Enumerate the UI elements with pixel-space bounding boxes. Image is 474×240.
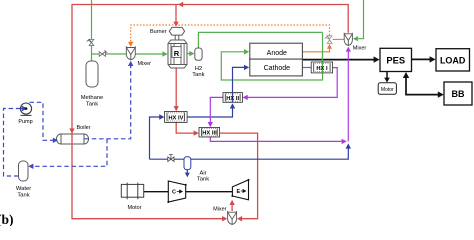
PES box: [380, 48, 412, 71]
arrow black right into BB left: [438, 91, 444, 97]
BB box: [444, 82, 472, 105]
svg-text:Motor: Motor: [127, 205, 141, 211]
arrow green into top mixer right: [353, 36, 358, 41]
wire purple HX II -> HX III: [210, 97, 223, 123]
wire red burner feed: [175, 5, 177, 23]
wire green overdraw at black line crossing: [321, 57, 323, 62]
svg-text:(b): (b): [0, 212, 14, 226]
wire red HX IV -> HX III: [176, 122, 195, 133]
arrow red into bottom mixer right: [237, 216, 242, 221]
wire blue air main line valve->tank->right riser: [150, 148, 349, 160]
arrow orange up into valve V3: [327, 44, 332, 49]
svg-text:Tank: Tank: [86, 102, 98, 108]
motor small box: [378, 83, 396, 95]
wire red reformer outlet R -> HX IV: [175, 68, 177, 107]
wire purple HX I -> HX II: [247, 68, 337, 98]
svg-text:Air: Air: [199, 170, 206, 176]
wire purple HX III -> junction -> top mixer: [210, 137, 342, 142]
svg-text:PES: PES: [386, 55, 405, 66]
wire green methane to mixer M1: [92, 53, 127, 55]
svg-text:Pump: Pump: [18, 119, 32, 125]
wire steam boiler -> mixer M1: [85, 65, 131, 139]
arrow black up into PES bottom: [403, 72, 409, 78]
wire green mixer M1 -> reformer R: [135, 53, 163, 55]
wire red HX III -> bottom mixer right: [219, 133, 257, 219]
heat exchanger HX III: [199, 127, 220, 137]
svg-text:HX IV: HX IV: [168, 116, 183, 122]
arrow blue into HX IV left: [159, 114, 164, 119]
mixer top (combustor feed): [344, 33, 352, 46]
arrow purple right into junction: [342, 139, 347, 144]
wire black shaft C -> E: [186, 191, 233, 193]
arrow green into anode left: [244, 49, 249, 54]
svg-text:Mixer: Mixer: [138, 61, 152, 67]
wire purple riser junction -> top mixer bottom: [347, 51, 349, 141]
reformer R vessel: [168, 40, 187, 68]
arrow red into boiler top: [69, 128, 74, 133]
svg-text:Tank: Tank: [192, 72, 204, 78]
wire black shaft motor -> C: [144, 191, 168, 193]
arrow red into E bottom: [229, 200, 234, 205]
svg-text:Tank: Tank: [17, 193, 29, 199]
wire red hot-gas main loop: top mixer -> top line -> left -> boiler -> bottom line -> bottom mixer: [72, 5, 348, 219]
wire purple cathode -> HX I: [302, 67, 311, 69]
compressor C vertex dots: [185, 184, 187, 186]
arrow water into water tank right: [28, 164, 33, 169]
arrow orange down into mixer M1 top: [128, 42, 133, 47]
arrow black into LOAD left: [430, 56, 436, 62]
wire black stack -> PES: [302, 59, 375, 61]
svg-text:Mixer: Mixer: [353, 45, 367, 51]
fuel cell cathode box: [250, 59, 303, 76]
mixer bottom (exhaust): [228, 211, 237, 225]
svg-text:BB: BB: [452, 89, 465, 99]
svg-text:LOAD: LOAD: [440, 56, 466, 66]
svg-text:C: C: [172, 190, 176, 196]
wire green methane supply vertical: [91, 0, 93, 61]
svg-text:Motor: Motor: [381, 87, 394, 93]
motor big: [121, 183, 143, 200]
arrow purple up into top mixer bottom: [346, 47, 351, 52]
valve V3 on orange offgas line: [325, 36, 332, 44]
svg-text:Methane: Methane: [81, 95, 104, 101]
svg-text:Cathode: Cathode: [264, 65, 291, 72]
valve V2 on methane horizontal: [99, 50, 107, 56]
arrow blue into HX II bottom: [230, 103, 235, 108]
svg-text:Burner: Burner: [150, 29, 167, 35]
compressor C: [168, 181, 185, 202]
wire green R -> H2 tank: [187, 53, 190, 55]
svg-text:Boiler: Boiler: [77, 125, 91, 131]
wire water pump -> boiler: [30, 102, 54, 140]
wire water return branch -> water tank: [32, 139, 107, 167]
arrow red into HX IV top: [174, 106, 179, 111]
valve V1 on methane vertical: [87, 39, 94, 46]
svg-text:Tank: Tank: [197, 177, 209, 183]
wire blue air tank bottom stub: [186, 170, 188, 174]
arrow blue down toward compressor C: [185, 173, 190, 178]
arrow red into burner top: [173, 22, 178, 27]
arrow blue into cathode left: [244, 65, 249, 70]
arrow green into R left: [162, 51, 167, 56]
wire water dashed tank -> pump: [4, 109, 21, 177]
svg-text:Mixer: Mixer: [213, 207, 227, 213]
svg-text:Anode: Anode: [267, 50, 287, 57]
valve V4 on air line: [168, 155, 174, 162]
fuel cell anode box: [250, 43, 303, 59]
wire orange stub valve -> top mixer left: [333, 38, 345, 40]
heat exchanger HX I: [311, 62, 332, 73]
wire green supply from top edge -> top mixer right: [357, 0, 364, 39]
burner: [169, 27, 184, 35]
wire blue riser to HX IV: [150, 117, 161, 159]
water tank: [19, 161, 29, 181]
expander E: [232, 180, 248, 200]
wire green H2 tank -> HX I riser: [198, 32, 322, 48]
arrow purple into HX III top: [208, 122, 213, 127]
heat exchanger HX IV: [165, 112, 188, 123]
methane tank: [86, 61, 98, 87]
arrow red flow left on top line: [178, 2, 183, 7]
svg-text:R: R: [174, 49, 180, 58]
H2 tank: [195, 48, 202, 60]
expander E vertex dots: [248, 179, 250, 181]
arrow red into bottom mixer left: [222, 216, 227, 221]
heat exchanger HX II: [223, 93, 242, 103]
arrow red into HX III left: [194, 130, 199, 135]
arrow black into motor small top: [384, 78, 390, 83]
wire black PES -> motor small: [386, 72, 388, 79]
wire red bottom mixer -> expander E: [231, 204, 233, 212]
wire orange recycle valve -> mixer M1 (dotted): [131, 25, 330, 43]
svg-text:HX III: HX III: [202, 131, 217, 137]
arrow green into H2 tank left: [189, 51, 194, 56]
svg-text:E: E: [237, 189, 241, 195]
svg-text:HX II: HX II: [226, 96, 239, 102]
arrow water into boiler left: [53, 138, 58, 143]
arrow black into PES left: [374, 56, 380, 62]
mixer M1: [126, 46, 135, 60]
svg-text:Water: Water: [16, 186, 31, 192]
pump: [20, 103, 31, 115]
arrow steam into mixer M1 bottom: [128, 61, 133, 66]
boiler: [56, 134, 88, 144]
wire blue HX IV -> HX II: [187, 108, 233, 117]
arrow purple into HX II right: [243, 95, 248, 100]
wire black PES -> LOAD: [412, 58, 432, 60]
wire blue HX II -> cathode: [233, 67, 246, 102]
arrow blue up into purple junction: [346, 143, 351, 148]
LOAD box: [436, 49, 470, 71]
air tank: [184, 157, 191, 170]
wire green branch through HX I down to anode: [221, 32, 322, 80]
svg-text:HX I: HX I: [316, 66, 328, 72]
burner neck: [175, 35, 179, 40]
wire black battery BB <-> PES: [406, 77, 440, 95]
wire orange anode offgas to valve (solid): [302, 45, 329, 52]
